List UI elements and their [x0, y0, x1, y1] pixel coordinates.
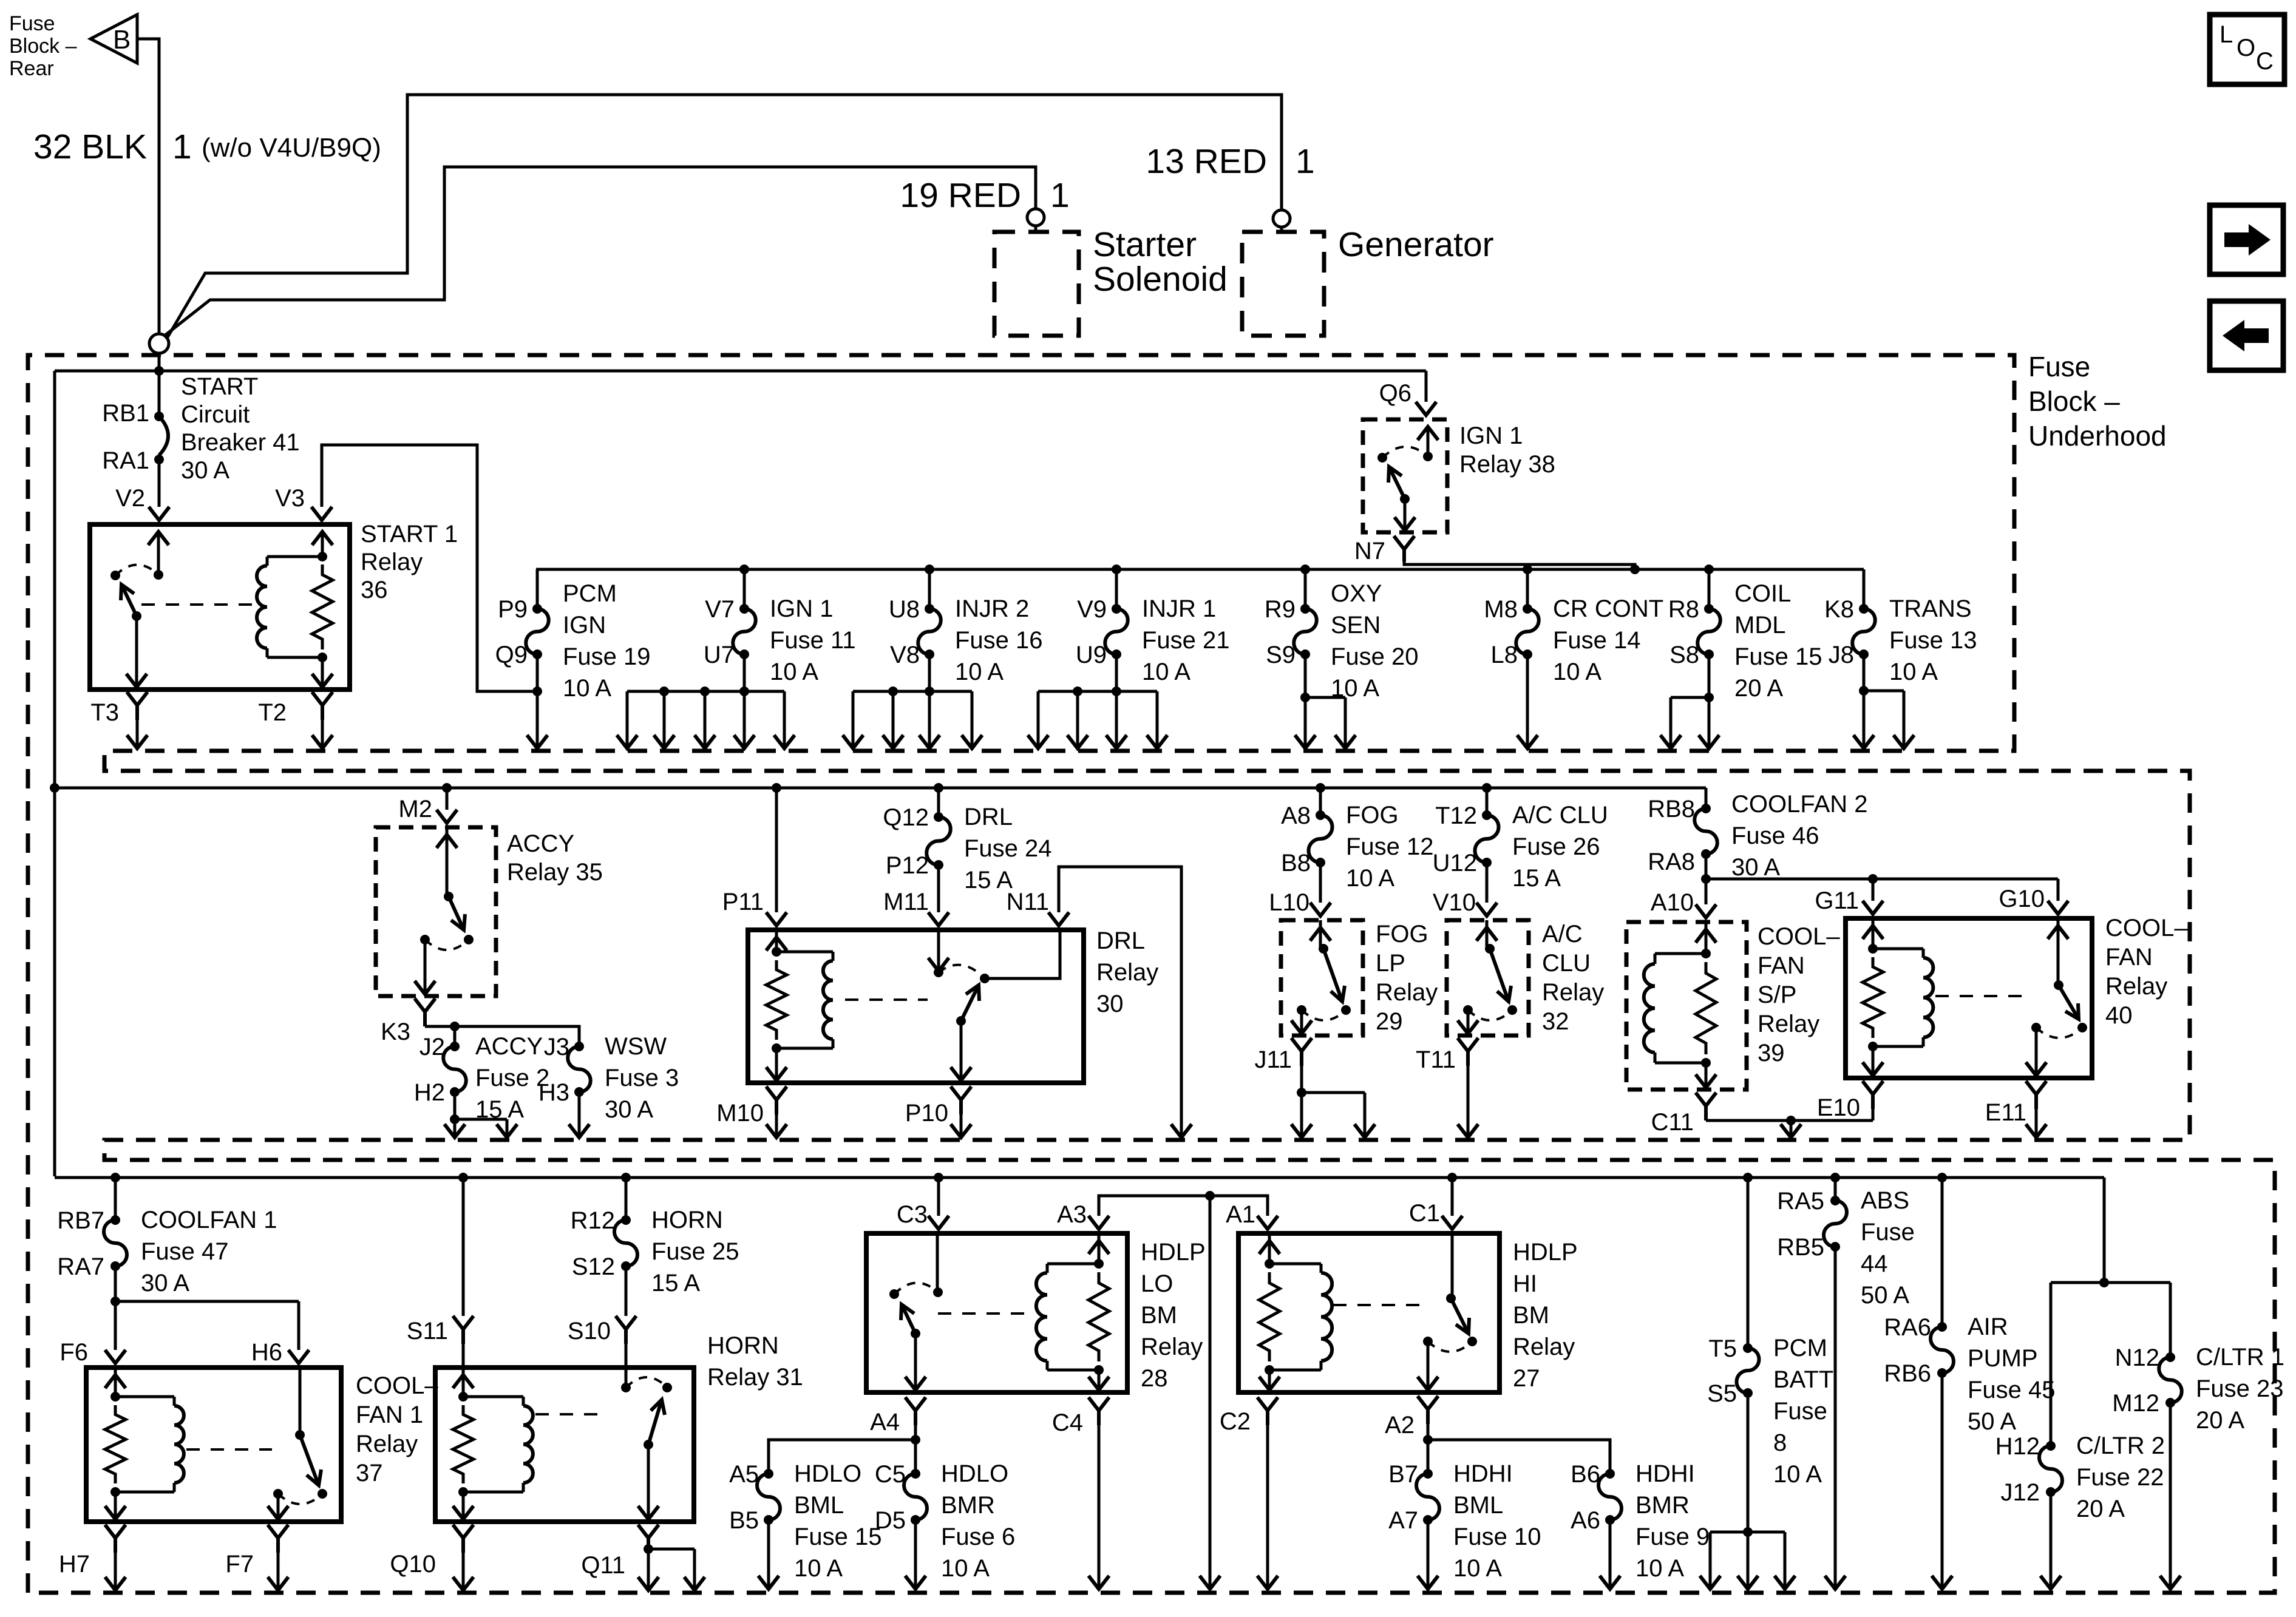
component Generator box — [1242, 232, 1324, 336]
wire HDHI BMR to border — [1609, 1520, 1612, 1588]
wire T3 to border — [136, 720, 139, 747]
component Starter Solenoid box — [994, 232, 1079, 336]
svg-text:COOLFAN 2: COOLFAN 2 — [1731, 791, 1868, 818]
svg-text:13 RED: 13 RED — [1146, 142, 1267, 181]
Fuse Block - Underhood dashed border (serpentine) — [28, 355, 2275, 1593]
wire IGN1 output fanout — [617, 686, 795, 748]
svg-text:FOG: FOG — [1376, 921, 1428, 947]
wire Q11 output arrows — [638, 1544, 705, 1590]
fuse F16 INJR 2 10A — [889, 569, 1043, 691]
svg-text:T3: T3 — [90, 699, 119, 726]
wire HDHI BML to border — [1427, 1520, 1430, 1588]
svg-text:Fuse: Fuse — [1773, 1398, 1827, 1425]
svg-text:IGN 1: IGN 1 — [1459, 422, 1523, 449]
svg-text:MDL: MDL — [1734, 612, 1785, 639]
svg-text:A8: A8 — [1281, 802, 1311, 829]
svg-text:ACCY: ACCY — [507, 830, 574, 857]
svg-text:Fuse 13: Fuse 13 — [1889, 627, 1977, 654]
svg-text:Fuse 14: Fuse 14 — [1553, 627, 1641, 654]
svg-text:1: 1 — [172, 127, 192, 166]
svg-text:Q10: Q10 — [390, 1551, 436, 1578]
svg-text:COOLFAN 1: COOLFAN 1 — [141, 1207, 277, 1233]
svg-text:Fuse: Fuse — [1861, 1219, 1915, 1246]
svg-text:Fuse 11: Fuse 11 — [770, 627, 856, 654]
svg-text:Fuse 3: Fuse 3 — [605, 1065, 679, 1091]
wire splice to 13 RED run (Generator) — [166, 95, 1282, 339]
fuse F47 COOLFAN 1 30A — [57, 1173, 277, 1306]
svg-text:HDHI: HDHI — [1635, 1460, 1695, 1487]
wire INJR1 output fanout — [1028, 686, 1167, 748]
svg-text:C3: C3 — [897, 1201, 928, 1228]
wire K3 to ACCY and WSW fuses — [425, 1026, 579, 1046]
relay 27 mechanical link — [1333, 1304, 1421, 1306]
svg-text:50 A: 50 A — [1861, 1282, 1909, 1309]
wire M10 to border — [775, 1114, 778, 1136]
svg-text:Q9: Q9 — [495, 642, 528, 668]
svg-text:RA8: RA8 — [1648, 849, 1695, 875]
svg-text:N7: N7 — [1354, 538, 1385, 564]
svg-text:10 A: 10 A — [563, 675, 611, 702]
svg-text:V9: V9 — [1077, 596, 1107, 623]
svg-text:Fuse: Fuse — [9, 12, 55, 35]
svg-text:A/C CLU: A/C CLU — [1512, 802, 1608, 829]
relay U35 ACCY box (dashed) — [376, 827, 496, 996]
svg-text:BM: BM — [1141, 1302, 1177, 1329]
svg-text:A7: A7 — [1388, 1507, 1418, 1534]
svg-text:10 A: 10 A — [1889, 659, 1938, 685]
wire bus1 to Q6 — [1425, 371, 1428, 402]
relay U31 HORN box — [435, 1368, 694, 1522]
svg-text:COOL–: COOL– — [2105, 915, 2188, 941]
svg-text:U9: U9 — [1076, 642, 1107, 668]
wire C1 from bus3 — [1447, 1173, 1457, 1182]
svg-text:BMR: BMR — [941, 1492, 995, 1519]
svg-text:J3: J3 — [544, 1034, 569, 1060]
svg-text:T2: T2 — [258, 699, 287, 726]
svg-text:V10: V10 — [1433, 889, 1476, 916]
wire A2 to HDHI fuses — [1423, 1424, 1610, 1474]
svg-text:M12: M12 — [2112, 1390, 2159, 1417]
relay 28 switch — [936, 1232, 939, 1292]
relay 36 coil and resistor — [321, 532, 324, 557]
wire main feed down from splice to bus 1 — [158, 353, 161, 408]
svg-text:Block –: Block – — [9, 35, 77, 58]
svg-text:IGN 1: IGN 1 — [770, 595, 833, 622]
fuse F45 AIR PUMP 50A — [1884, 1173, 2055, 1588]
svg-text:Q6: Q6 — [1379, 380, 1411, 407]
svg-text:30 A: 30 A — [141, 1270, 189, 1297]
svg-text:C11: C11 — [1651, 1109, 1694, 1136]
wire J11 output arrows — [1291, 1066, 1375, 1137]
svg-text:R12: R12 — [571, 1207, 615, 1234]
relay U38 IGN 1 box (dashed) — [1363, 419, 1447, 532]
svg-text:HORN: HORN — [651, 1207, 723, 1233]
svg-text:HI: HI — [1513, 1270, 1537, 1297]
svg-text:Fuse 21: Fuse 21 — [1142, 627, 1230, 654]
wire P10 to border — [960, 1114, 963, 1136]
relay 30 switch — [937, 930, 940, 970]
svg-text:N12: N12 — [2115, 1344, 2159, 1371]
wire E11 to border — [2035, 1109, 2038, 1136]
fuse F46 COOLFAN 2 30A — [1648, 788, 1867, 904]
relay 40 switch — [2057, 918, 2060, 985]
wire Fuse47 output to F6 and H6 — [115, 1301, 299, 1350]
svg-text:A3: A3 — [1057, 1201, 1087, 1228]
fuse F10 HDHI BML 10A — [1388, 1460, 1541, 1582]
svg-text:Underhood: Underhood — [2028, 420, 2167, 452]
svg-text:A6: A6 — [1571, 1507, 1600, 1534]
svg-text:Fuse 25: Fuse 25 — [651, 1238, 739, 1265]
svg-text:U12: U12 — [1433, 850, 1477, 876]
svg-text:S9: S9 — [1266, 642, 1296, 668]
relay 37 mechanical link — [186, 1448, 272, 1451]
svg-text:START 1: START 1 — [361, 521, 458, 547]
svg-text:HDHI: HDHI — [1453, 1460, 1513, 1487]
relay U28 HDLP LO BM box — [866, 1233, 1127, 1392]
svg-text:E10: E10 — [1817, 1094, 1860, 1121]
connector P11 — [772, 783, 781, 793]
svg-text:20 A: 20 A — [1734, 675, 1783, 702]
svg-text:Relay 31: Relay 31 — [707, 1364, 803, 1391]
svg-text:BM: BM — [1513, 1302, 1549, 1329]
svg-text:Fuse 19: Fuse 19 — [563, 643, 651, 670]
relay 39 coil and resistor — [1705, 922, 1708, 954]
relay 27 switch — [1451, 1232, 1454, 1298]
svg-text:LP: LP — [1376, 950, 1405, 977]
wire T2 to border — [321, 720, 324, 747]
wire A4 to HDLO fuses — [769, 1425, 920, 1474]
svg-text:B8: B8 — [1281, 850, 1311, 876]
svg-text:S12: S12 — [572, 1253, 615, 1280]
svg-text:WSW: WSW — [605, 1033, 667, 1060]
relay 31 mechanical link — [535, 1413, 607, 1415]
svg-text:RA7: RA7 — [57, 1253, 104, 1280]
svg-text:V7: V7 — [705, 596, 735, 623]
svg-text:G11: G11 — [1815, 887, 1859, 914]
svg-text:Relay: Relay — [1141, 1334, 1203, 1360]
fuse F14 CR CONT 10A — [1484, 569, 1663, 691]
svg-text:M11: M11 — [883, 889, 929, 915]
fuse F8 PCM BATT 10A — [1707, 1173, 1833, 1537]
svg-text:29: 29 — [1376, 1008, 1403, 1035]
svg-text:B5: B5 — [729, 1507, 759, 1534]
wire INJR2 output fanout — [843, 686, 982, 748]
relay 30 coil and resistor — [775, 930, 778, 952]
svg-text:O: O — [2237, 35, 2255, 61]
svg-text:10 A: 10 A — [1553, 659, 1601, 685]
svg-text:Fuse 20: Fuse 20 — [1331, 643, 1419, 670]
wire OXY SEN output arrows — [1295, 697, 1356, 748]
svg-text:ABS: ABS — [1861, 1187, 1909, 1214]
svg-text:C: C — [2256, 48, 2274, 75]
fuse F23 C/LTR 1 20A — [2112, 1344, 2284, 1588]
wire C/LTR2 to border — [2040, 1576, 2061, 1589]
fuse F25 HORN 15A — [571, 1173, 739, 1316]
svg-text:BMR: BMR — [1635, 1492, 1690, 1519]
svg-text:RB7: RB7 — [57, 1207, 104, 1234]
svg-text:P10: P10 — [905, 1100, 948, 1127]
wire C4 to border — [1098, 1425, 1101, 1588]
svg-text:15 A: 15 A — [964, 867, 1013, 893]
svg-text:LO: LO — [1141, 1270, 1173, 1297]
svg-text:V8: V8 — [890, 642, 920, 668]
connector M2 — [442, 783, 452, 793]
svg-text:10 A: 10 A — [1346, 865, 1394, 892]
wire V3 to PCM IGN fuse output — [322, 445, 532, 691]
fuse F2 ACCY 15A — [414, 1033, 549, 1124]
svg-text:P12: P12 — [886, 852, 929, 879]
relay U40 COOL-FAN box — [1846, 918, 2092, 1078]
svg-text:B7: B7 — [1388, 1461, 1418, 1488]
svg-text:C4: C4 — [1052, 1409, 1083, 1436]
wire C11 to E10 with border arrow — [1706, 1116, 1873, 1137]
wire TRANS output arrows — [1853, 691, 1914, 748]
svg-text:R9: R9 — [1265, 596, 1296, 623]
wire H7 to border — [114, 1553, 117, 1589]
svg-text:INJR 2: INJR 2 — [955, 595, 1029, 622]
svg-text:G10: G10 — [1999, 886, 2045, 912]
svg-text:30: 30 — [1096, 991, 1124, 1017]
wire C2 to border — [1266, 1425, 1269, 1588]
svg-text:HDLP: HDLP — [1513, 1239, 1578, 1266]
svg-text:Fuse 45: Fuse 45 — [1968, 1377, 2056, 1403]
svg-text:C/LTR 1: C/LTR 1 — [2196, 1344, 2284, 1371]
svg-text:HDLP: HDLP — [1141, 1239, 1206, 1266]
svg-text:DRL: DRL — [1096, 927, 1145, 954]
svg-text:C1: C1 — [1409, 1200, 1440, 1227]
svg-text:S8: S8 — [1669, 642, 1699, 668]
svg-text:32 BLK: 32 BLK — [33, 127, 147, 166]
svg-text:Relay: Relay — [361, 549, 423, 575]
relay 40 coil and resistor — [1872, 918, 1875, 949]
svg-text:10 A: 10 A — [955, 659, 1004, 685]
svg-text:Relay: Relay — [356, 1431, 418, 1457]
svg-text:30 A: 30 A — [1731, 854, 1780, 881]
svg-text:P9: P9 — [498, 596, 528, 623]
svg-text:A4: A4 — [870, 1409, 900, 1436]
svg-text:Generator: Generator — [1338, 225, 1494, 264]
relay 36 switch — [157, 533, 160, 575]
terminal ring Starter Solenoid — [1027, 209, 1044, 226]
svg-text:V2: V2 — [115, 485, 145, 512]
svg-text:COIL: COIL — [1734, 580, 1791, 607]
svg-text:37: 37 — [356, 1460, 383, 1486]
svg-text:RB1: RB1 — [102, 400, 149, 427]
wire HDLO BML to border — [767, 1520, 770, 1588]
svg-text:Fuse 46: Fuse 46 — [1731, 822, 1819, 849]
svg-text:Fuse 47: Fuse 47 — [141, 1238, 229, 1265]
relay 28 mechanical link — [938, 1312, 1032, 1315]
svg-text:BML: BML — [1453, 1492, 1503, 1519]
svg-text:Circuit: Circuit — [181, 401, 250, 428]
relay U30 DRL box — [748, 930, 1084, 1083]
svg-text:F7: F7 — [225, 1551, 254, 1578]
svg-text:S11: S11 — [407, 1318, 448, 1344]
svg-text:Fuse 16: Fuse 16 — [955, 627, 1043, 654]
svg-text:Fuse 24: Fuse 24 — [964, 835, 1052, 862]
bus wire fuse row (y=938) — [536, 568, 1864, 571]
svg-text:M8: M8 — [1484, 596, 1518, 623]
svg-text:C/LTR 2: C/LTR 2 — [2076, 1432, 2165, 1459]
svg-text:TRANS: TRANS — [1889, 595, 1972, 622]
relay 38 switch — [1427, 427, 1430, 456]
fuse F15b HDLO BML 10A — [729, 1460, 881, 1582]
wire PCM BATT output arrows — [1700, 1532, 1795, 1589]
svg-text:M2: M2 — [398, 796, 432, 822]
svg-text:B: B — [113, 25, 131, 55]
svg-text:U7: U7 — [704, 642, 735, 668]
svg-text:10 A: 10 A — [794, 1555, 843, 1582]
wire C/LTR1 to border — [2160, 1576, 2181, 1589]
svg-text:50 A: 50 A — [1968, 1408, 2016, 1435]
fuse F9 HDHI BMR 10A — [1571, 1460, 1710, 1582]
relay U36 START 1 box — [90, 524, 350, 690]
svg-text:Rear: Rear — [9, 57, 54, 80]
relay 29 switch — [1319, 920, 1322, 949]
svg-text:27: 27 — [1513, 1365, 1540, 1392]
wire RA8 junction to G11 and G10 — [1706, 874, 2058, 901]
svg-text:Fuse 26: Fuse 26 — [1512, 833, 1600, 860]
relay U32 A/C CLU box (dashed) — [1447, 920, 1529, 1036]
bus wire row 1 (y=611) — [55, 370, 1426, 373]
svg-text:R8: R8 — [1668, 596, 1699, 623]
svg-text:44: 44 — [1861, 1250, 1888, 1277]
svg-text:L8: L8 — [1491, 642, 1518, 668]
relay U29 FOG LP box (dashed) — [1281, 920, 1363, 1036]
svg-text:Fuse 23: Fuse 23 — [2196, 1375, 2284, 1402]
relay 40 mechanical link — [1935, 995, 2028, 997]
svg-text:A/C: A/C — [1542, 921, 1583, 947]
svg-text:Fuse 9: Fuse 9 — [1635, 1524, 1710, 1550]
svg-text:SEN: SEN — [1331, 612, 1381, 639]
svg-text:RA1: RA1 — [102, 447, 149, 474]
fuse F6b HDLO BMR 10A — [875, 1460, 1015, 1582]
svg-text:Relay 35: Relay 35 — [507, 859, 603, 886]
svg-text:Fuse 6: Fuse 6 — [941, 1524, 1015, 1550]
bus wire row 3 (y=1940) — [55, 1176, 2104, 1179]
svg-text:A2: A2 — [1385, 1412, 1415, 1439]
fuse F11 IGN 1 10A — [704, 569, 856, 691]
svg-text:10 A: 10 A — [941, 1555, 990, 1582]
fuse F13 TRANS 10A — [1824, 569, 1977, 696]
svg-text:S10: S10 — [568, 1318, 611, 1344]
svg-text:K8: K8 — [1824, 596, 1854, 623]
wire AIR PUMP to border — [1932, 1576, 1952, 1589]
svg-text:AIR: AIR — [1968, 1314, 2008, 1340]
wire left rail x=90 connecting buses — [53, 371, 56, 1176]
svg-text:Fuse 22: Fuse 22 — [2076, 1464, 2164, 1491]
svg-text:Relay 38: Relay 38 — [1459, 451, 1555, 478]
fuse F21 INJR 1 10A — [1076, 569, 1230, 691]
wire PCM IGN output arrow — [536, 691, 539, 747]
svg-text:P11: P11 — [722, 889, 764, 915]
svg-text:H2: H2 — [414, 1079, 445, 1106]
relay U37 COOL-FAN 1 box — [86, 1368, 341, 1522]
svg-text:CR CONT: CR CONT — [1553, 595, 1663, 622]
svg-text:Solenoid: Solenoid — [1093, 260, 1228, 299]
svg-text:RA5: RA5 — [1777, 1188, 1824, 1215]
svg-text:10 A: 10 A — [770, 659, 818, 685]
svg-text:1: 1 — [1296, 142, 1315, 181]
svg-text:H7: H7 — [59, 1551, 90, 1578]
svg-text:HDLO: HDLO — [794, 1460, 861, 1487]
svg-text:K3: K3 — [381, 1019, 410, 1045]
junction node splice — [149, 334, 169, 353]
relay 32 switch — [1486, 920, 1489, 949]
svg-text:T11: T11 — [1416, 1046, 1456, 1073]
svg-text:H3: H3 — [538, 1079, 569, 1106]
svg-text:Relay: Relay — [1513, 1334, 1575, 1360]
svg-text:Relay: Relay — [1542, 979, 1604, 1006]
svg-text:Breaker 41: Breaker 41 — [181, 429, 300, 456]
page symbol arrow-right box — [2210, 205, 2283, 274]
svg-text:F6: F6 — [59, 1339, 88, 1366]
svg-text:OXY: OXY — [1331, 580, 1382, 607]
svg-text:1: 1 — [1050, 176, 1070, 215]
svg-text:36: 36 — [361, 577, 388, 603]
relay 35 switch — [446, 827, 449, 897]
svg-text:FAN: FAN — [1758, 952, 1805, 979]
wire ACCY fuse output arrows — [444, 1119, 517, 1137]
relay 36 mechanical link — [141, 603, 257, 606]
svg-text:M10: M10 — [716, 1100, 764, 1127]
svg-text:20 A: 20 A — [2196, 1407, 2244, 1434]
fuse F3 WSW 30A — [538, 1033, 679, 1123]
svg-text:RB6: RB6 — [1884, 1360, 1931, 1387]
svg-text:PUMP: PUMP — [1968, 1345, 2038, 1372]
svg-text:N11: N11 — [1007, 889, 1049, 915]
svg-text:D5: D5 — [875, 1507, 906, 1534]
wire COIL MDL output arrows — [1660, 697, 1719, 748]
svg-text:Fuse 15: Fuse 15 — [794, 1524, 882, 1550]
svg-text:PCM: PCM — [1773, 1335, 1827, 1361]
svg-text:Block –: Block – — [2028, 385, 2120, 417]
svg-text:FAN 1: FAN 1 — [356, 1402, 423, 1428]
svg-text:Q12: Q12 — [883, 804, 929, 831]
circuit breaker 41 START 30A — [158, 408, 161, 416]
fuse F20 OXY SEN 10A — [1265, 569, 1419, 702]
relay 28 coil and resistor — [1098, 1233, 1101, 1264]
fuse F15 COIL MDL 20A — [1668, 569, 1822, 702]
svg-text:H12: H12 — [1995, 1433, 2040, 1460]
wire splice to 19 RED run (Starter Solenoid) — [165, 167, 1036, 336]
svg-text:IGN: IGN — [563, 612, 606, 639]
svg-text:Fuse 15: Fuse 15 — [1734, 643, 1822, 670]
svg-text:28: 28 — [1141, 1365, 1168, 1392]
svg-text:10 A: 10 A — [1773, 1461, 1822, 1488]
wire HDLO BMR to border — [914, 1520, 917, 1588]
svg-text:A1: A1 — [1226, 1201, 1255, 1228]
svg-text:L: L — [2220, 21, 2233, 48]
svg-text:COOL–: COOL– — [1758, 923, 1840, 950]
wire bus3 right branch to C/LTR fuses — [2051, 1178, 2170, 1446]
relay 27 coil and resistor — [1268, 1233, 1271, 1264]
fuse F22 C/LTR 2 20A — [1995, 1432, 2165, 1588]
svg-text:Starter: Starter — [1093, 225, 1197, 264]
svg-text:E11: E11 — [1985, 1099, 2026, 1126]
fuse F12 FOG 10A — [1281, 783, 1433, 903]
svg-text:Fuse: Fuse — [2028, 351, 2090, 382]
fuse F26 A/C CLU 15A — [1433, 783, 1608, 903]
wire WSW fuse output arrow — [578, 1092, 581, 1136]
fuse F19 PCM IGN 10A — [495, 569, 651, 702]
relay 31 switch — [625, 1368, 628, 1388]
svg-text:RB5: RB5 — [1777, 1234, 1824, 1261]
svg-text:INJR 1: INJR 1 — [1142, 595, 1216, 622]
wire A3-A1 interconnect with unlabeled border arrow — [1099, 1191, 1268, 1589]
svg-text:C2: C2 — [1220, 1408, 1251, 1435]
svg-text:Relay: Relay — [2105, 973, 2167, 1000]
